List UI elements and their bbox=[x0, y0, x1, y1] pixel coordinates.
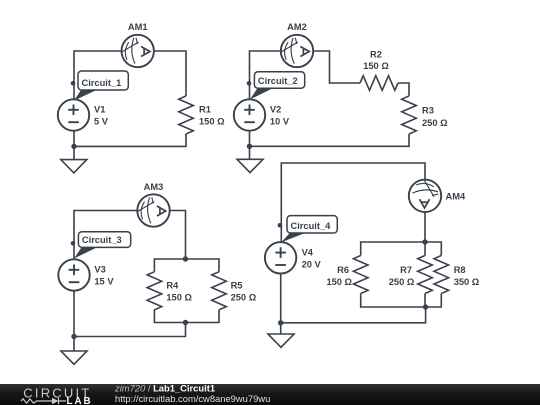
svg-text:V2: V2 bbox=[270, 105, 281, 115]
ammeter AM3 bbox=[137, 194, 169, 226]
svg-text:AM1: AM1 bbox=[128, 22, 148, 32]
wire circuit4 source-top loop bbox=[281, 163, 425, 242]
resistor R1 bbox=[179, 96, 194, 134]
svg-text:Circuit_4: Circuit_4 bbox=[291, 221, 332, 231]
svg-text:R8: R8 bbox=[454, 265, 466, 275]
wire circuit1 ammeter-right to resistor top bbox=[154, 51, 186, 96]
node junction circuit4 bottom bbox=[423, 304, 428, 309]
svg-text:Circuit_1: Circuit_1 bbox=[82, 78, 122, 88]
voltage source V1 bbox=[58, 99, 89, 130]
wire circuit4 parallel bottom rail bbox=[361, 294, 442, 308]
resistor R4 bbox=[147, 272, 162, 310]
wire circuit3 bottom return bbox=[74, 323, 186, 337]
wire circuit4 parallel top rail bbox=[361, 242, 442, 256]
wire circuit2 ammeter to R2 bbox=[314, 51, 361, 83]
node junction circuit3 bottom bbox=[183, 320, 188, 325]
node junction circuit3 top bbox=[183, 256, 188, 261]
resistor R7 bbox=[418, 256, 433, 294]
svg-text:Circuit_2: Circuit_2 bbox=[258, 76, 298, 86]
svg-text:20 V: 20 V bbox=[302, 260, 322, 270]
wire circuit3 parallel bottom rail bbox=[154, 310, 219, 323]
svg-text:AM3: AM3 bbox=[144, 182, 164, 192]
wire circuit4 bottom return bbox=[281, 307, 426, 323]
wire circuit4 R7 bottom stub bbox=[424, 294, 426, 308]
wire circuit2 bottom bbox=[250, 134, 410, 146]
wire circuit4 ammeter-bottom down bbox=[424, 212, 426, 242]
svg-text:R4: R4 bbox=[166, 281, 179, 291]
voltage source V3 bbox=[58, 259, 89, 290]
svg-text:R5: R5 bbox=[231, 281, 243, 291]
ground circuit3 bbox=[61, 351, 87, 364]
resistor R6 bbox=[353, 256, 368, 294]
label Circuit_2 bbox=[247, 72, 305, 100]
svg-text:R7: R7 bbox=[400, 265, 412, 275]
wire circuit3 parallel top rail bbox=[154, 259, 219, 272]
resistor R8 bbox=[434, 256, 449, 294]
wire circuit3 ammeter-right down bbox=[170, 211, 186, 260]
ground circuit1 bbox=[61, 160, 87, 173]
resistor R2 bbox=[360, 76, 398, 91]
label Circuit_1 bbox=[71, 71, 129, 101]
svg-text:5 V: 5 V bbox=[94, 117, 109, 127]
svg-text:150 Ω: 150 Ω bbox=[166, 293, 192, 303]
wire circuit2 R2 to R3 bbox=[398, 83, 409, 96]
label Circuit_3 bbox=[71, 232, 131, 259]
voltage source V2 bbox=[234, 99, 265, 130]
svg-text:R1: R1 bbox=[199, 105, 211, 115]
svg-text:R6: R6 bbox=[337, 265, 349, 275]
node junction circuit4 left bbox=[278, 320, 283, 325]
svg-text:LAB: LAB bbox=[67, 396, 93, 405]
wire circuit2 source-top loop bbox=[250, 51, 282, 99]
voltage source V4 bbox=[265, 242, 296, 273]
wire circuit4 R7 top stub bbox=[424, 242, 426, 256]
svg-text:15 V: 15 V bbox=[94, 277, 114, 287]
svg-text:250 Ω: 250 Ω bbox=[422, 118, 448, 128]
svg-text:350 Ω: 350 Ω bbox=[454, 277, 480, 287]
ammeter AM1 bbox=[122, 35, 154, 67]
ground circuit4 bbox=[268, 334, 294, 347]
svg-text:R2: R2 bbox=[370, 49, 382, 59]
svg-text:150 Ω: 150 Ω bbox=[363, 61, 389, 71]
svg-text:AM2: AM2 bbox=[287, 22, 307, 32]
svg-text:AM4: AM4 bbox=[446, 191, 466, 201]
node junction circuit2 bbox=[247, 144, 252, 149]
node junction circuit1 bbox=[71, 144, 76, 149]
node junction circuit3 left bbox=[71, 334, 76, 339]
logo squiggle resistor-diode bbox=[21, 399, 52, 403]
wire circuit1 top-left loop bbox=[74, 51, 122, 100]
svg-text:V3: V3 bbox=[94, 265, 105, 275]
label Circuit_4 bbox=[278, 216, 338, 243]
svg-text:Circuit_3: Circuit_3 bbox=[82, 235, 122, 245]
svg-text:V4: V4 bbox=[302, 248, 314, 258]
resistor R3 bbox=[402, 96, 417, 134]
svg-text:10 V: 10 V bbox=[270, 117, 290, 127]
wire circuit1 source-bottom bbox=[73, 131, 75, 160]
ammeter AM2 bbox=[281, 35, 313, 67]
ammeter AM4 bbox=[409, 180, 441, 212]
wire circuit3 source-top loop bbox=[74, 211, 137, 260]
svg-text:150 Ω: 150 Ω bbox=[199, 117, 225, 127]
wire circuit1 bottom bbox=[74, 134, 186, 146]
wire circuit4 source-bottom bbox=[280, 274, 282, 335]
svg-text:150 Ω: 150 Ω bbox=[326, 277, 352, 287]
wire circuit3 source-bottom bbox=[73, 291, 75, 351]
svg-text:R3: R3 bbox=[422, 106, 434, 116]
svg-text:http://circuitlab.com/cw8ane9w: http://circuitlab.com/cw8ane9wu79wu bbox=[115, 393, 270, 404]
svg-text:250 Ω: 250 Ω bbox=[389, 277, 415, 287]
node junction circuit4 top bbox=[422, 239, 427, 244]
resistor R5 bbox=[212, 272, 227, 310]
svg-text:V1: V1 bbox=[94, 105, 105, 115]
wire circuit2 source-bottom bbox=[249, 131, 251, 160]
svg-text:250 Ω: 250 Ω bbox=[231, 293, 257, 303]
ground circuit2 bbox=[237, 159, 263, 172]
